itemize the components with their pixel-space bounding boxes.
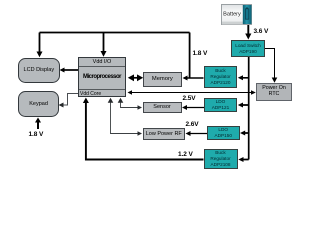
svg-text:Battery: Battery (223, 12, 241, 18)
